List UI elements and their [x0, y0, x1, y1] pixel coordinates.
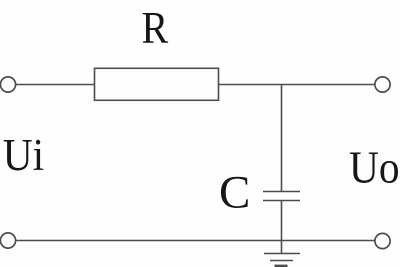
svg-text:C: C — [219, 167, 250, 219]
ground bar 1 — [264, 253, 300, 255]
capacitor C bottom plate — [263, 200, 300, 202]
resistor R — [95, 68, 219, 100]
wire capacitor to ground rail — [281, 201, 283, 254]
wire resistor to output terminal — [219, 84, 376, 86]
ground bar 2 — [270, 260, 293, 262]
terminal input top — [0, 77, 15, 92]
terminal output bottom — [375, 233, 390, 248]
wire input to resistor — [15, 84, 94, 86]
bottom wire rail — [15, 240, 375, 242]
terminal output top — [375, 77, 390, 92]
svg-text:Uo: Uo — [349, 143, 400, 193]
ground bar 3 — [275, 265, 288, 267]
svg-text:Ui: Ui — [3, 130, 44, 180]
wire node to capacitor top plate — [281, 85, 283, 192]
svg-text:R: R — [142, 4, 169, 54]
capacitor C top plate — [263, 191, 300, 193]
terminal input bottom — [0, 233, 15, 248]
